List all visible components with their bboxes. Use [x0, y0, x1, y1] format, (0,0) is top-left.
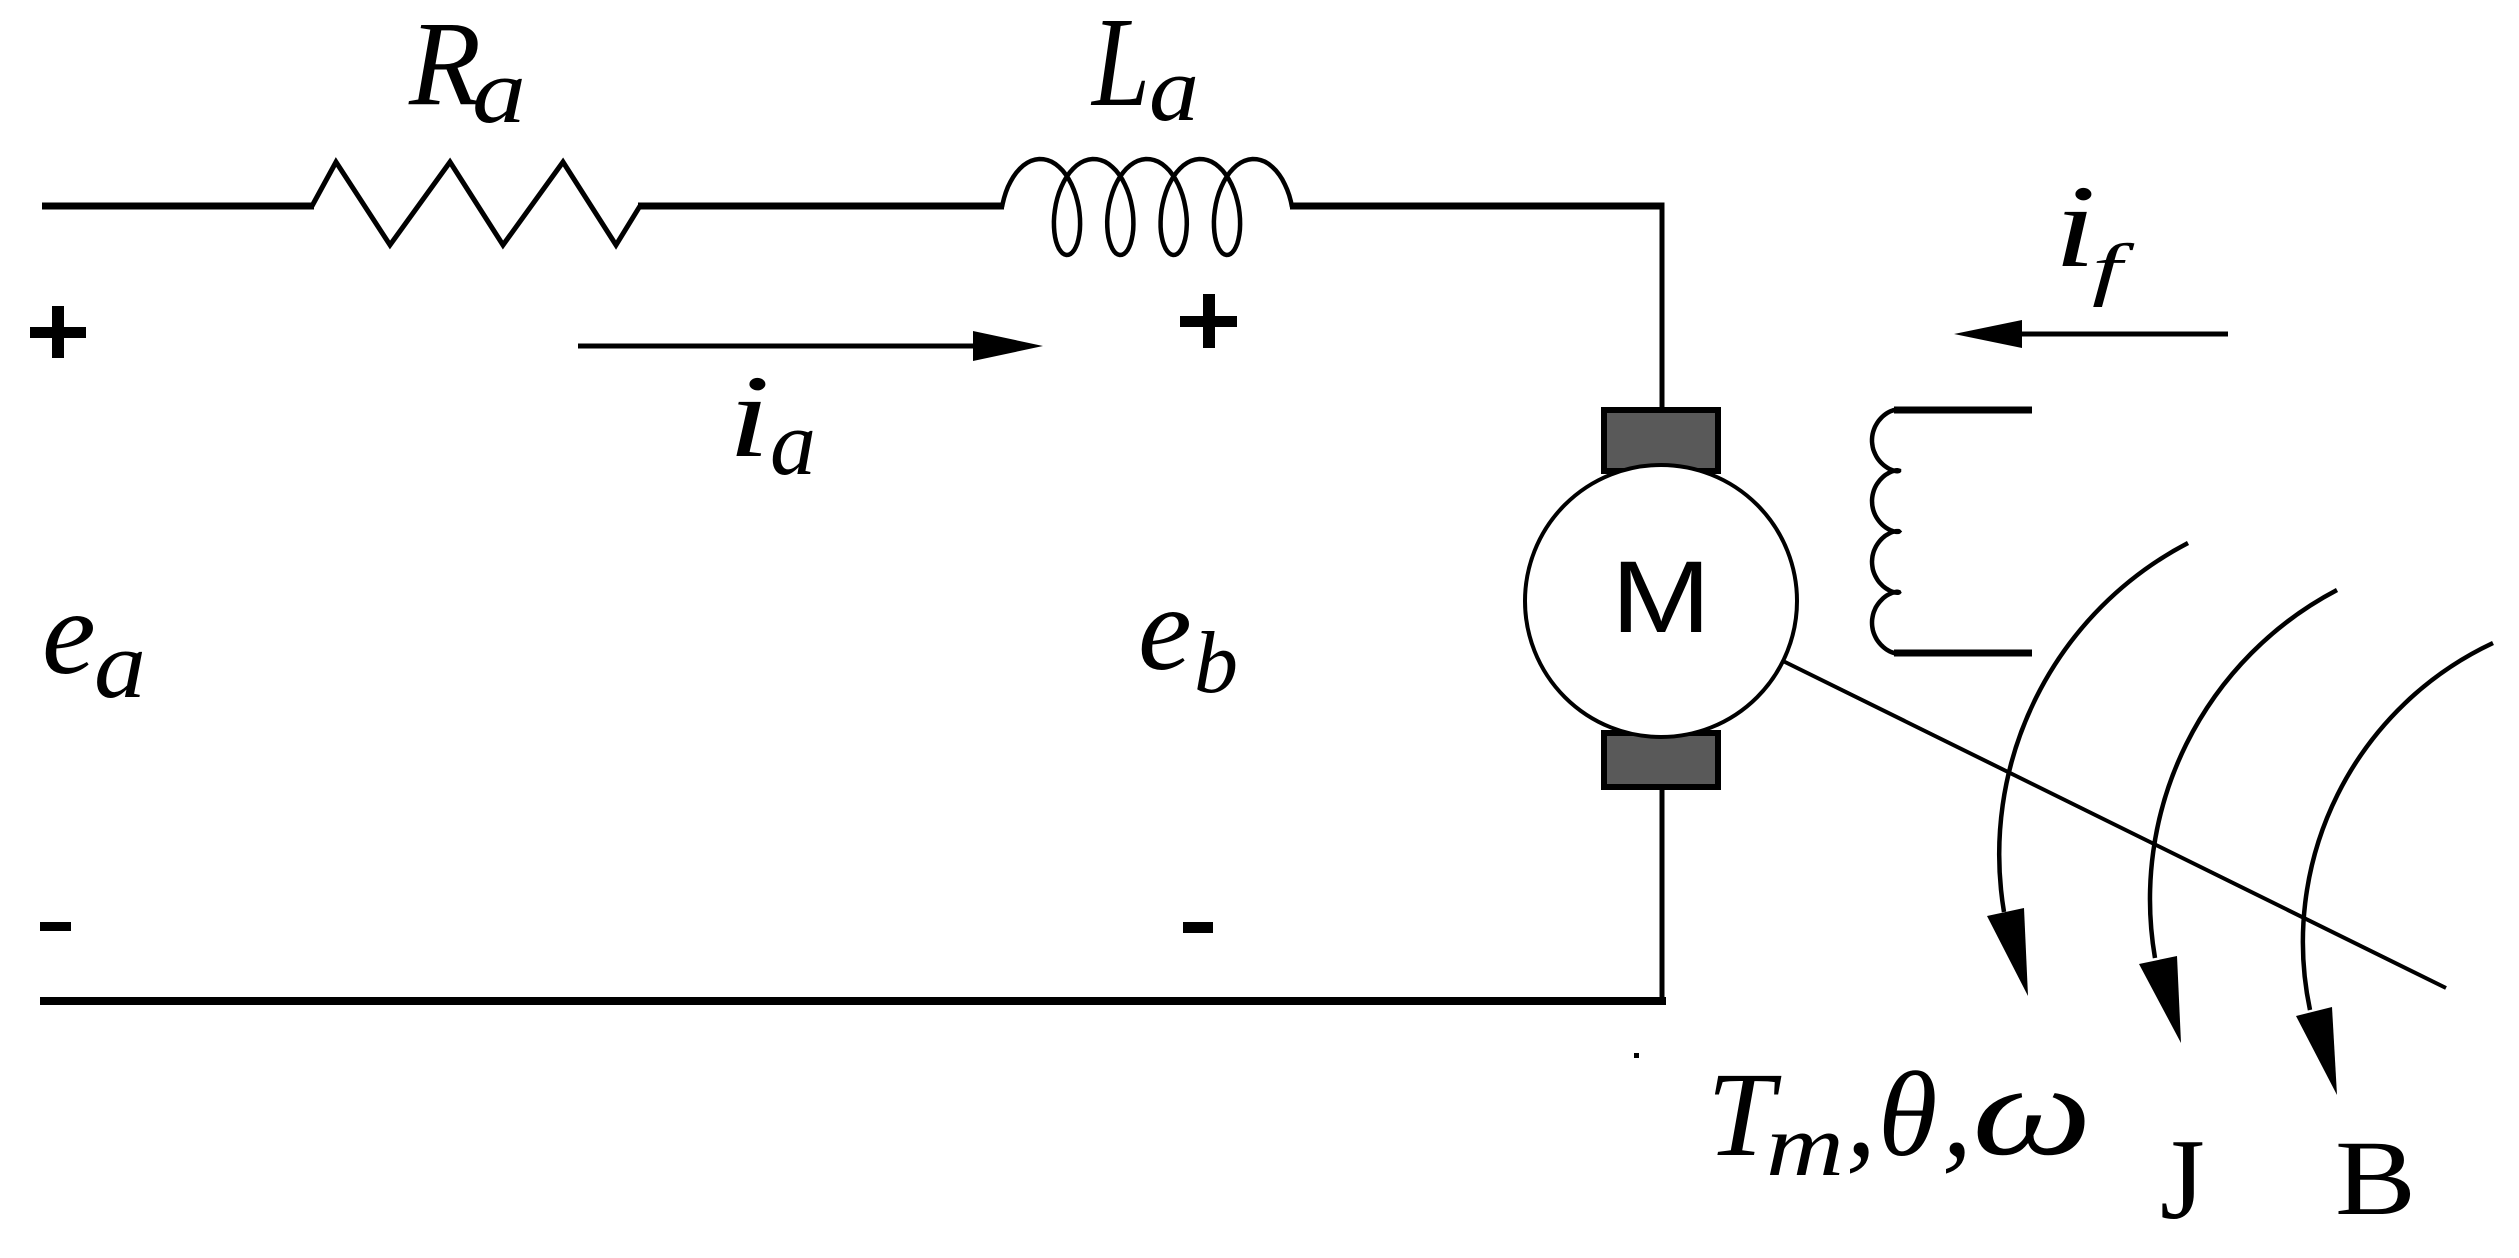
svg-text:θ: θ: [1878, 1048, 1937, 1182]
field winding bottom lead: [1894, 650, 2032, 657]
rotation arc 2: [2150, 590, 2337, 958]
arrowhead arc 3: [2296, 1007, 2337, 1095]
current arrow if: [1954, 320, 2228, 348]
svg-text:B: B: [2335, 1120, 2416, 1238]
svg-text:R: R: [408, 0, 481, 131]
minus sign left: [40, 922, 71, 931]
brush top: [1604, 410, 1718, 471]
label eb: [1138, 562, 1238, 712]
svg-text:,: ,: [1846, 1048, 1876, 1182]
svg-text:e: e: [1138, 562, 1192, 696]
bottom wire: [40, 997, 1666, 1005]
label ea: [42, 566, 146, 718]
svg-text:m: m: [1766, 1098, 1844, 1195]
motor M circle: [1525, 465, 1797, 737]
field winding top lead: [1894, 407, 2032, 414]
wire inductor to corner: [1290, 203, 1665, 210]
svg-text:J: J: [2160, 1116, 2205, 1243]
minus sign middle: [1183, 922, 1213, 933]
rotation arc 3: [2303, 643, 2493, 1010]
wire motor bottom vertical: [1660, 785, 1665, 1003]
svg-text:i: i: [2054, 161, 2096, 292]
motor shaft: [1783, 661, 2446, 988]
svg-text:a: a: [472, 40, 526, 142]
svg-text:b: b: [1194, 615, 1238, 712]
svg-text:ω: ω: [1972, 1039, 2092, 1183]
arrowhead arc 2: [2139, 956, 2181, 1043]
svg-text:M: M: [1611, 540, 1711, 654]
brush bottom: [1604, 733, 1718, 787]
current arrow ia: [578, 331, 1043, 361]
stray dot: [1634, 1053, 1639, 1058]
inductor La: [1002, 159, 1292, 255]
svg-text:a: a: [94, 611, 146, 718]
arrowhead arc 1: [1987, 908, 2028, 996]
label ia: [728, 351, 816, 494]
field winding coil: [1872, 410, 1899, 654]
svg-text:a: a: [1149, 38, 1199, 140]
label Ra: [408, 0, 526, 142]
svg-text:,: ,: [1942, 1048, 1972, 1182]
label if: [2054, 161, 2135, 308]
svg-text:i: i: [728, 351, 770, 482]
plus sign left: [30, 306, 86, 358]
svg-text:e: e: [42, 566, 96, 700]
label La: [1090, 0, 1199, 140]
resistor Ra: [312, 162, 640, 245]
svg-text:L: L: [1090, 0, 1150, 133]
rotation arc 1: [1999, 543, 2188, 912]
svg-text:a: a: [770, 392, 816, 494]
label Tm,theta,omega: [1707, 1039, 2092, 1195]
wire top left segment: [42, 203, 314, 210]
wire between resistor and inductor: [638, 203, 1004, 210]
plus sign middle: [1180, 294, 1237, 348]
wire vertical down to motor: [1660, 203, 1665, 412]
